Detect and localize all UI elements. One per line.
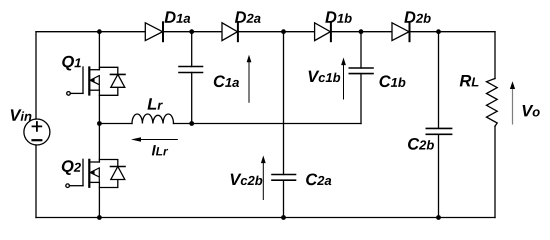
label ILr bbox=[152, 145, 168, 155]
capacitor C1b plates bbox=[349, 68, 373, 74]
transistor Q2 gate circle bbox=[66, 184, 70, 188]
label C2a bbox=[306, 174, 331, 186]
capacitor C2a plates bbox=[272, 175, 296, 181]
node top rail / C2a bbox=[281, 29, 286, 34]
label Vo bbox=[523, 105, 540, 117]
transistor Q2 body diode loop bbox=[99, 160, 117, 188]
transistor Q1 channel dashes bbox=[88, 68, 90, 95]
voltage arrow Vc1b bbox=[341, 58, 346, 100]
capacitor C1b top lead bbox=[360, 32, 362, 68]
node top rail / C1b bbox=[359, 29, 364, 34]
transistor Q1 body arrow bbox=[90, 76, 99, 91]
label D2a bbox=[235, 11, 261, 23]
capacitor C2b top lead bbox=[438, 32, 440, 129]
transistor Q1 body diode bbox=[111, 74, 126, 87]
node bottom rail / C2a bottom bbox=[281, 215, 286, 220]
transistor Q2 gate lead bbox=[69, 185, 83, 187]
label C2b bbox=[408, 138, 434, 150]
wire left branch lower bbox=[35, 145, 37, 218]
capacitor C1a bottom lead bbox=[191, 73, 193, 124]
wire mid rail right of inductor bbox=[174, 123, 362, 125]
wire top rail segment 4 bbox=[331, 31, 392, 33]
label D1b bbox=[325, 11, 351, 23]
node mid rail / C1a bottom bbox=[189, 121, 194, 126]
label C1a bbox=[214, 75, 239, 87]
wire bottom rail bbox=[36, 217, 495, 219]
label Vin bbox=[11, 109, 32, 120]
label Q2 bbox=[62, 160, 81, 175]
label RL bbox=[460, 75, 479, 86]
label Q1 bbox=[62, 56, 81, 71]
wire left branch upper bbox=[35, 32, 37, 119]
resistor RL zigzag bbox=[487, 79, 498, 127]
wire top rail segment 5 bbox=[410, 31, 496, 33]
capacitor C2a top lead bbox=[283, 32, 285, 175]
transistor Q2 gate bar bbox=[82, 159, 84, 185]
transistor Q1 source stub bbox=[89, 89, 99, 91]
capacitor C2b plates bbox=[426, 128, 451, 134]
diode D2a bbox=[222, 22, 238, 41]
label D1a bbox=[165, 11, 191, 23]
voltage arrow for C1a bbox=[247, 55, 252, 103]
wire top rail segment 1 bbox=[36, 31, 145, 33]
diode D1b bbox=[315, 22, 331, 41]
node top rail / C2b bbox=[436, 29, 441, 34]
Vin minus sign bbox=[33, 139, 42, 141]
label Vc1b bbox=[309, 71, 341, 83]
voltage arrow Vo bbox=[510, 81, 515, 124]
transistor Q1 drain wire bbox=[98, 32, 100, 70]
transistor Q2 body arrow bbox=[90, 168, 99, 183]
node top rail / C1a bbox=[189, 29, 194, 34]
resistor RL bottom lead bbox=[494, 126, 496, 217]
inductor Lr bbox=[132, 114, 174, 124]
voltage source Vin circle bbox=[24, 119, 50, 145]
transistor Q2 source wire bbox=[98, 182, 100, 217]
transistor Q2 drain wire bbox=[98, 124, 100, 163]
label C1b bbox=[380, 75, 406, 87]
wire mid rail left of inductor bbox=[99, 123, 132, 125]
transistor Q1 gate lead bbox=[70, 92, 83, 94]
capacitor C1b bottom lead bbox=[360, 74, 362, 124]
transistor Q1 gate circle bbox=[67, 92, 71, 96]
label D2b bbox=[404, 11, 430, 23]
diode D2b bbox=[392, 22, 410, 41]
diode D1a bbox=[145, 22, 163, 41]
transistor Q1 gate bar bbox=[82, 67, 84, 93]
label Lr bbox=[148, 98, 163, 109]
wire top rail segment 2 bbox=[163, 31, 222, 33]
node bottom rail / C2b bottom bbox=[436, 215, 441, 220]
transistor Q2 body diode bbox=[111, 167, 126, 180]
transistor Q1 source wire bbox=[98, 90, 100, 123]
capacitor C1a plates bbox=[179, 67, 203, 73]
node bottom rail / Q2 source bbox=[97, 215, 102, 220]
transistor Q2 source stub bbox=[89, 181, 99, 183]
transistor Q1 drain stub bbox=[89, 69, 99, 71]
capacitor C2b bottom lead bbox=[438, 134, 440, 217]
capacitor C1a top lead bbox=[191, 32, 193, 67]
transistor Q2 channel dashes bbox=[88, 160, 90, 187]
wire top rail segment 3 bbox=[238, 31, 315, 33]
transistor Q1 body diode loop bbox=[99, 67, 117, 95]
transistor Q2 drain stub bbox=[89, 161, 99, 163]
node top rail / Q1 drain bbox=[97, 29, 102, 34]
current arrow ILr bbox=[131, 137, 178, 142]
resistor RL top lead bbox=[494, 32, 496, 79]
capacitor C2a bottom lead bbox=[283, 180, 285, 217]
Vin plus sign bbox=[33, 122, 42, 131]
label Vc2b bbox=[231, 174, 263, 186]
node mid rail / Q1 Q2 junction bbox=[97, 121, 102, 126]
voltage arrow Vc2b bbox=[261, 156, 266, 201]
